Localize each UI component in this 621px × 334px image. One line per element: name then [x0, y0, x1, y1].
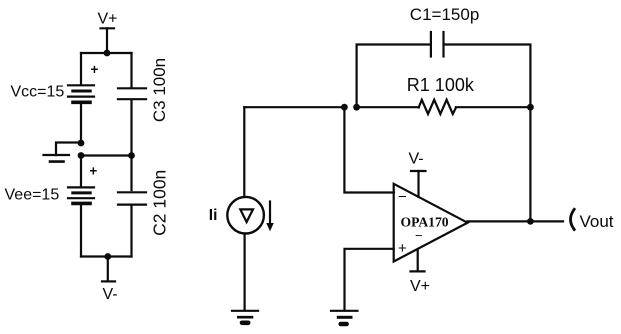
terminal V+ — [101, 27, 115, 29]
pin V+ (bottom supply pin) — [411, 249, 425, 271]
wire — [130, 207, 132, 257]
svg-text:Vcc=15: Vcc=15 — [11, 84, 65, 101]
label C2 100n — [150, 170, 170, 236]
battery Vcc — [68, 62, 99, 103]
capacitor C3 — [118, 88, 146, 99]
wire — [130, 101, 132, 156]
svg-text:V+: V+ — [410, 278, 430, 295]
node junction — [527, 104, 534, 111]
wire — [80, 103, 82, 144]
svg-text:C1=150p: C1=150p — [410, 5, 479, 24]
wire — [357, 106, 419, 108]
svg-text:+: + — [398, 240, 407, 257]
wire — [244, 106, 344, 108]
node junction — [341, 104, 348, 111]
label Vee=15 — [5, 187, 60, 204]
wire — [130, 53, 132, 87]
wire — [106, 28, 108, 53]
capacitor C2 — [118, 192, 146, 204]
current source Ii — [227, 197, 273, 234]
node junction — [104, 253, 111, 260]
svg-text:C3 100n: C3 100n — [150, 58, 169, 122]
wire — [444, 45, 530, 108]
node junction — [78, 152, 85, 159]
wire — [130, 156, 132, 191]
terminal V- — [102, 280, 115, 282]
wire — [81, 255, 132, 257]
node junction — [128, 152, 135, 159]
wire — [244, 234, 246, 310]
op-amp U1 OPA170 — [394, 184, 468, 262]
label C1=150p — [410, 5, 479, 24]
wire — [344, 107, 394, 192]
ground (non-inverting input) — [331, 311, 358, 324]
battery Vee — [68, 164, 97, 204]
wire — [345, 249, 394, 310]
label V- (op-amp) — [408, 151, 423, 168]
label V- (bottom supply terminal) — [102, 286, 117, 303]
label OPA170 — [401, 215, 449, 230]
svg-text:+: + — [89, 164, 97, 179]
label C3 100n — [150, 58, 169, 122]
svg-text:Vout: Vout — [580, 212, 614, 231]
wire — [81, 52, 132, 54]
node junction — [353, 104, 360, 111]
label R1 100k — [407, 75, 475, 95]
node junction — [104, 50, 111, 57]
node junction — [78, 140, 85, 147]
label V+ (top supply terminal) — [97, 10, 117, 27]
wire — [357, 45, 430, 108]
svg-text:+: + — [91, 62, 99, 77]
svg-text:−: − — [398, 189, 407, 206]
wire — [80, 156, 82, 188]
label Ii — [209, 207, 218, 224]
label Vcc=15 — [11, 84, 65, 101]
wire — [107, 257, 109, 282]
pin V- (top supply pin) — [411, 171, 426, 197]
resistor R1 — [419, 100, 456, 114]
svg-text:V-: V- — [408, 151, 423, 168]
label Vout — [580, 212, 614, 231]
terminal Vout — [571, 209, 575, 229]
svg-text:V-: V- — [102, 286, 117, 303]
svg-text:−: − — [415, 228, 423, 243]
wire — [56, 143, 81, 156]
svg-text:V+: V+ — [97, 10, 117, 27]
ground (current source) — [232, 311, 258, 323]
wire — [80, 204, 82, 257]
wire — [468, 220, 564, 222]
wire — [456, 106, 530, 108]
svg-text:Ii: Ii — [209, 207, 218, 224]
svg-text:R1 100k: R1 100k — [407, 75, 475, 95]
wire — [80, 53, 82, 85]
svg-text:OPA170: OPA170 — [401, 215, 449, 230]
wire — [529, 107, 531, 221]
svg-text:C2 100n: C2 100n — [150, 170, 170, 236]
label V+ (op-amp) — [410, 278, 430, 295]
wire — [81, 154, 132, 156]
node junction — [527, 218, 534, 225]
capacitor C1 — [431, 32, 444, 57]
wire — [243, 107, 245, 196]
ground (supply midpoint) — [44, 155, 70, 162]
svg-text:Vee=15: Vee=15 — [5, 187, 60, 204]
